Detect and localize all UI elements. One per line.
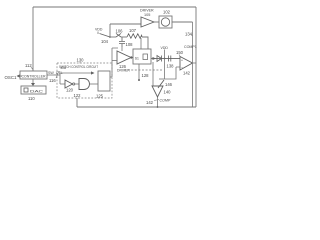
svg-text:116: 116 (49, 78, 56, 83)
wire gate to block (90, 83, 98, 85)
wire controller to OSC (17, 75, 22, 77)
svg-text:DRIVER: DRIVER (117, 69, 130, 73)
wire driver to stage (154, 21, 159, 23)
svg-text:106: 106 (116, 28, 124, 33)
arrow amp to latch (131, 57, 133, 59)
wire node down (164, 59, 166, 80)
wire latch bottom down (138, 64, 140, 79)
wire into latch top (140, 38, 142, 49)
wire from dashed box bottom down (76, 98, 78, 107)
svg-text:104: 104 (101, 39, 109, 44)
block 124 box (98, 71, 110, 91)
svg-text:128: 128 (142, 73, 150, 78)
inverting amp U7 (152, 86, 163, 97)
AND gate U3 (79, 79, 90, 90)
svg-text:107: 107 (129, 28, 137, 33)
svg-text:105: 105 (144, 13, 150, 17)
driver amp U4 (141, 17, 154, 27)
svg-text:COMP1: COMP1 (184, 45, 197, 49)
wire to node B (121, 36, 127, 38)
svg-text:−: − (181, 66, 183, 70)
svg-text:DAC: DAC (30, 90, 44, 94)
wire up-over to block 124 (60, 73, 91, 84)
node dot bottom (157, 106, 159, 108)
leader COMP (154, 100, 159, 101)
svg-text:S1: S1 (135, 56, 139, 60)
svg-text:102: 102 (163, 10, 171, 15)
controller U1 box (20, 71, 47, 79)
wire top run to driver (110, 23, 141, 25)
svg-text:COMP: COMP (160, 99, 171, 103)
switch S1 blade (100, 34, 111, 38)
arrowhead mid (153, 57, 157, 60)
svg-text:142: 142 (146, 100, 154, 105)
comparator lower input (165, 67, 181, 79)
wire node A right (110, 36, 116, 38)
resistor R1 (127, 34, 142, 38)
dashed segment under latch (124, 69, 162, 71)
switch S2 (116, 33, 121, 37)
output stage circle (161, 18, 169, 26)
svg-text:146: 146 (165, 82, 173, 87)
leader 134 (191, 34, 193, 36)
comparator U8 (180, 57, 193, 71)
wire feedback vertical (192, 22, 194, 107)
wire into inv amp (152, 62, 154, 86)
DAC inner mark (24, 88, 28, 92)
cap C2 to amp top (121, 47, 123, 51)
outer box top edge (33, 6, 196, 8)
outer box right edge (195, 7, 197, 107)
svg-text:SWITCH CONTROL CIRCUIT: SWITCH CONTROL CIRCUIT (59, 65, 99, 69)
leader 130 (79, 62, 81, 64)
leader 150 (179, 55, 181, 58)
error amp inputs (112, 60, 117, 62)
svg-text:OSC1: OSC1 (5, 75, 18, 80)
svg-text:110: 110 (28, 96, 35, 101)
svg-text:150: 150 (176, 50, 184, 55)
capacitor C3 bars (169, 56, 171, 62)
wire amp to bottom (157, 97, 159, 107)
arrowhead into OSC (17, 74, 21, 78)
svg-text:134: 134 (185, 32, 193, 37)
DAC box (21, 86, 46, 94)
node A junction (109, 36, 111, 38)
svg-text:DRIVER: DRIVER (140, 9, 154, 13)
dashed box: switch control circuit (57, 63, 112, 98)
wire stage to output node (172, 21, 193, 23)
wire controller to switch control circuit (47, 74, 60, 76)
comparator output (191, 62, 196, 64)
svg-text:122: 122 (74, 93, 82, 98)
svg-text:142: 142 (183, 70, 191, 75)
output stage box (159, 16, 172, 28)
arrowhead into DAC (31, 83, 35, 86)
wire inverter to gate (75, 83, 79, 85)
wire stub left (159, 78, 165, 80)
wire controller down (32, 79, 34, 83)
svg-text:125: 125 (96, 93, 104, 98)
svg-text:VDD: VDD (161, 46, 169, 50)
capacitor C1 (119, 38, 125, 48)
terminal dot (138, 79, 140, 81)
wire latch out (151, 58, 180, 60)
wire node A up (109, 24, 111, 37)
latch box U6 (133, 49, 151, 64)
switch S3 blade (158, 80, 164, 88)
svg-text:VDD: VDD (95, 28, 103, 32)
svg-text:120: 120 (66, 88, 74, 93)
svg-text:138: 138 (167, 63, 175, 68)
wire resistor to corner (142, 37, 148, 49)
leader 112 (31, 67, 33, 69)
arrowhead into block 124 (91, 71, 95, 74)
wire bottom feedback (77, 106, 196, 108)
svg-text:108: 108 (126, 42, 134, 47)
svg-text:140: 140 (164, 90, 172, 95)
inverter U2 (65, 80, 73, 88)
wire into buffer (60, 83, 65, 85)
svg-text:+: + (181, 59, 183, 63)
crossing slash (56, 71, 59, 78)
wire block 124 to amp (110, 61, 112, 78)
outer box left edge (32, 7, 34, 71)
error amp U5 (117, 51, 131, 64)
svg-text:130: 130 (77, 58, 85, 63)
svg-text:CONTROLLER: CONTROLLER (22, 74, 47, 78)
diode D1 (157, 56, 162, 62)
node dot (164, 58, 166, 60)
